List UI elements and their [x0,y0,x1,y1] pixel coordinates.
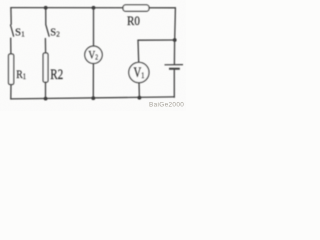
node V2 bottom junction [91,96,95,100]
battery short plate [169,68,180,70]
voltmeter V1 body [129,62,149,82]
wire left rail upper (top corner to S1) [10,8,12,25]
wire S2 branch middle (S2 to R2) [44,39,46,54]
wire bottom rail [11,97,175,99]
node V2 top junction [92,6,96,10]
scan noise overlay [0,0,1,1]
resistor R0 body [123,5,149,11]
wire V2 branch upper [93,8,95,46]
wire left rail middle (S1 to R1) [10,38,12,54]
wire S2 branch upper [45,8,47,25]
switch S1 blade [11,25,14,36]
switch S2 blade [46,25,49,37]
wire R2 to bottom rail [45,82,47,99]
wire top rail [11,7,176,9]
wire V1 to bottom rail [138,83,140,98]
resistor R2 body [43,53,48,82]
node S2 top junction [44,6,48,10]
battery long plate [165,64,184,66]
voltmeter V2 body [85,46,102,63]
wire V2 to bottom rail [92,64,94,99]
node V1 bottom junction [138,96,142,100]
node R2 bottom junction [44,97,48,101]
node right rail junction [173,38,177,42]
wire V1 stem [137,40,140,62]
wire right rail upper (top corner to junction) [174,8,177,40]
wire V1 horizontal [138,39,175,41]
resistor R1 body [9,54,14,85]
wire battery upper lead [173,40,175,64]
wire left rail lower (R1 to bottom rail) [10,85,12,100]
wire battery lower lead [173,70,175,98]
